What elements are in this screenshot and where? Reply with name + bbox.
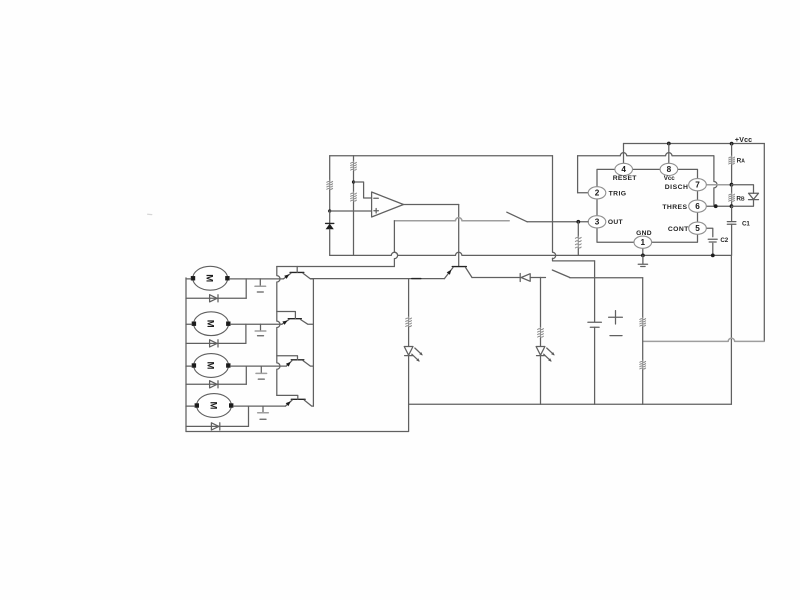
wire Q5 collector line (472, 277, 519, 279)
pin 3 circle of 555 (588, 216, 606, 228)
svg-text:6: 6 (695, 202, 700, 211)
wire motor M3 right lead (231, 365, 287, 367)
op-amp U1 comparator (372, 192, 404, 217)
LED LED1 (404, 347, 413, 356)
wire OUT resistor bottom (577, 249, 579, 256)
wire R1 to plus node (329, 190, 331, 211)
wire motor M1 diode branch (245, 279, 247, 298)
svg-text:M: M (204, 274, 215, 282)
pin 8 circle of 555 (660, 163, 678, 175)
wire diode D7 to LED2 corner (530, 277, 540, 279)
svg-text:M: M (205, 362, 216, 370)
resistor RA (731, 156, 733, 165)
transistor Q3 (291, 359, 304, 361)
transistor Q2 (288, 318, 301, 320)
wire loop right edge (553, 156, 556, 259)
op IC 555 outline (597, 169, 698, 242)
junction dot GND pin/rail (641, 254, 645, 258)
stray mark (148, 213, 152, 215)
motor M1 (193, 266, 228, 290)
wire switch feed (gray) (394, 218, 509, 221)
wire plus node to diode (329, 211, 331, 223)
wire diode branch top (732, 185, 754, 194)
LED LED2 (536, 347, 545, 356)
switch S2 blade (552, 270, 570, 278)
diode D7 (520, 274, 530, 282)
wire gray feed drop (394, 221, 397, 267)
wire chain corner (642, 278, 644, 318)
wire RB junction to C1 (731, 206, 733, 221)
wire op-amp output (404, 204, 459, 206)
resistor R1 left branch (329, 180, 331, 190)
wire diode to ground rail (329, 229, 331, 255)
wire TRIG stub (578, 192, 589, 194)
battery BT1 plates (588, 321, 602, 323)
pin 2 circle of 555 (588, 187, 606, 199)
wire left branch top (329, 156, 331, 181)
wire plus input line (330, 210, 372, 212)
wire battery bottom lead (594, 327, 596, 404)
svg-text:C2: C2 (720, 237, 728, 244)
wire C2 to ground rail (712, 243, 714, 255)
svg-text:Vcc: Vcc (664, 175, 676, 182)
wire motor M3 diode branch (245, 366, 247, 384)
wire +Vcc to RA (731, 144, 733, 157)
diode D6 to ground rail (326, 224, 334, 230)
wire pin4 riser (623, 144, 625, 164)
pin 5 circle of 555 (689, 222, 707, 234)
resistor R6 (642, 360, 644, 370)
wire +Vcc top rail (624, 143, 765, 145)
ground symbol M2 (260, 324, 262, 331)
wire GND pin stub (642, 248, 644, 255)
wire DISCH stub (706, 184, 731, 186)
wire diode line M3 (186, 383, 246, 385)
dark segment on Q5 emitter line (412, 278, 421, 280)
transistor Q1 (290, 271, 304, 273)
resistor R8 LED2 (540, 327, 542, 338)
label battery plus (609, 311, 623, 324)
resistor R2 divider upper (353, 161, 355, 171)
wire collector bus (312, 279, 314, 406)
wire divider top (353, 156, 355, 162)
junction dot pin8 riser (667, 142, 671, 146)
wire LED2 to bottom rail (540, 356, 542, 405)
svg-text:RB: RB (736, 195, 745, 202)
svg-text:2: 2 (595, 189, 600, 198)
svg-text:CONT: CONT (668, 226, 689, 233)
svg-text:TRIG: TRIG (609, 190, 627, 197)
svg-text:3: 3 (595, 218, 600, 227)
junction dot RB/THRES/diode (730, 204, 734, 208)
wire output drop to driver base (458, 205, 460, 267)
wire motor M2 right lead (231, 323, 282, 325)
wire motor M3 left lead (186, 365, 192, 367)
wire right drop below ground rail (730, 255, 732, 404)
wire right edge from +Vcc rail (763, 144, 765, 342)
transistor Q5 (452, 266, 466, 268)
wire motor M1 left lead (186, 278, 191, 280)
wire loop jog to battery column (553, 258, 595, 261)
pin 1 circle of 555 (634, 236, 652, 248)
wire motor M2 left lead (186, 323, 192, 325)
svg-text:5: 5 (695, 224, 700, 233)
label battery minus (610, 335, 622, 337)
junction dot C2/rail (711, 254, 715, 258)
svg-text:GND: GND (636, 230, 652, 237)
wire motor M1 right lead (230, 278, 284, 280)
wire TRIG riser (577, 156, 579, 193)
resistor R5 (642, 317, 644, 327)
diode D5 (parallel RB) (749, 193, 759, 199)
pin 6 circle of 555 (689, 200, 707, 212)
ground symbol M4 (262, 406, 264, 413)
wire divider middle (353, 171, 355, 192)
junction dot DISCH/RA/RB (730, 183, 734, 187)
svg-text:RA: RA (737, 158, 746, 165)
wire LED2 branch top (540, 278, 542, 328)
wire battery top lead (594, 261, 596, 322)
wire bottom rail (409, 403, 732, 405)
wire Q2 base feed (277, 312, 296, 319)
svg-text:THRES: THRES (662, 204, 687, 211)
wire minus input step (354, 182, 372, 198)
motor M3 (194, 354, 229, 378)
resistor R3 divider lower (353, 192, 355, 202)
svg-text:RESET: RESET (613, 175, 638, 182)
junction mid tap (642, 327, 644, 361)
svg-text:M: M (207, 402, 218, 410)
wire 555 ground rail (330, 252, 732, 255)
wire motor M4 right lead (233, 405, 285, 407)
junction dot divider tap (352, 180, 355, 183)
motor M2 (194, 312, 229, 336)
wire left bus (185, 278, 187, 432)
ground symbol under pin 1 (638, 255, 647, 266)
wire pin8 riser (668, 144, 670, 164)
wire LED1 branch top (408, 279, 410, 318)
wire RA to DISCH junction (731, 165, 733, 185)
diode D4 (211, 423, 219, 430)
svg-text:DISCH: DISCH (665, 184, 689, 191)
wire motor M4 diode branch (248, 406, 250, 426)
svg-text:4: 4 (621, 165, 626, 174)
wire R7 to LED1 (408, 328, 410, 347)
wire comparator loop top (330, 155, 553, 157)
wire motor M4 left lead (186, 405, 195, 407)
svg-text:M: M (205, 320, 216, 328)
wire driver base feed line (277, 266, 395, 268)
wire R8 to LED2 (540, 338, 542, 346)
ground symbol M3 (260, 366, 262, 373)
wire RB top (731, 185, 733, 194)
wire diode line M4 (186, 425, 249, 427)
wire LED2 contact stub (541, 277, 546, 279)
resistor R4 on OUT (577, 236, 579, 249)
wire OUT line (527, 221, 588, 223)
junction dot +Vcc/RA (730, 142, 734, 146)
svg-text:7: 7 (695, 181, 700, 190)
junction dot OUT/resistor (576, 220, 580, 224)
resistor R7 LED1 (408, 317, 410, 328)
capacitor C2 (708, 239, 717, 242)
wire THRES stub (706, 205, 731, 207)
wire mid tap to right edge (643, 338, 764, 341)
switch S1 blade at OUT (507, 212, 527, 222)
wire THRES drop with hop over pin7 wire (714, 156, 717, 206)
wire OUT resistor top (577, 222, 579, 237)
wire Q4 base feed (277, 395, 298, 399)
wire Q3 base feed (277, 356, 298, 360)
wire RB bottom (731, 202, 733, 206)
wire bottom rail left corner (186, 404, 409, 431)
capacitor C1 (727, 222, 736, 225)
junction dot THRES tie (714, 204, 718, 208)
diode D2 (210, 340, 218, 347)
wire chain bottom (642, 370, 644, 404)
wire divider bottom (353, 202, 355, 255)
svg-text:+Vcc: +Vcc (735, 137, 752, 144)
svg-text:C1: C1 (742, 220, 750, 227)
wire LED1 to bottom rail (408, 356, 410, 405)
resistor RB (731, 193, 733, 202)
pin 4 circle of 555 (615, 163, 633, 175)
wire motor M2 diode branch (245, 324, 247, 343)
svg-text:OUT: OUT (608, 219, 624, 226)
wire driver base bus (277, 267, 280, 396)
motor M4 (197, 394, 232, 418)
junction dot plus node (328, 209, 331, 212)
wire diode branch bottom (732, 200, 754, 207)
diode D1 (210, 295, 218, 302)
svg-text:8: 8 (667, 165, 672, 174)
wire TRIG-THRES tie top (578, 153, 714, 156)
wire Q5 emitter line (311, 278, 445, 280)
wire Q1 base lead (296, 267, 298, 273)
wire diode line M1 (186, 297, 246, 299)
wire CONT stub (706, 228, 713, 237)
transistor Q4 (291, 398, 305, 400)
diode D3 (210, 381, 218, 388)
wire diode line M2 (186, 342, 246, 344)
svg-text:1: 1 (641, 238, 646, 247)
pin 7 circle of 555 (689, 179, 707, 191)
wire C1 to ground rail (731, 224, 733, 255)
wire S2 to resistor chain corner (570, 277, 643, 279)
ground symbol M1 (259, 279, 261, 286)
